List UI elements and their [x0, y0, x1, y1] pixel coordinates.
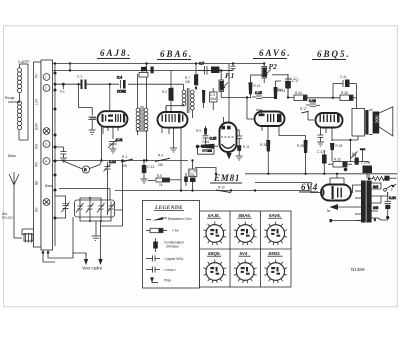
wire bus y190 left	[115, 190, 196, 192]
svg-text:6AV6.: 6AV6.	[269, 213, 281, 218]
junction node grid EM81	[196, 145, 218, 154]
capacitor C6 series	[151, 67, 154, 74]
wire 6AV6 to R28	[279, 131, 306, 136]
ground under 6BA6	[170, 148, 177, 152]
resistor R12 small	[216, 186, 231, 194]
wire switch bottom to gang	[42, 250, 73, 262]
tube 6V4 envelope	[321, 185, 351, 201]
svg-text:Blanc: Blanc	[45, 184, 53, 188]
svg-text:R.13: R.13	[254, 84, 261, 88]
svg-text:Blanc: Blanc	[8, 154, 16, 158]
switch wafer left column	[34, 62, 42, 247]
svg-text:300: 300	[375, 115, 380, 123]
svg-text:C.13: C.13	[148, 165, 155, 169]
wire AF to OT	[287, 96, 357, 99]
svg-text:CON2: CON2	[117, 90, 126, 94]
switch contact dots	[54, 62, 57, 219]
resistor R5	[156, 174, 170, 187]
capacitor C15	[203, 126, 217, 147]
wire R5 leads	[148, 179, 182, 182]
wire left column x55	[54, 64, 56, 247]
svg-text:4: 4	[45, 160, 47, 164]
power transformer core	[361, 181, 372, 223]
power transformer taps left	[355, 185, 361, 221]
legend resistor 1w	[146, 228, 179, 232]
variable capacitor CV3	[97, 202, 105, 215]
svg-text:1M8: 1M8	[203, 149, 209, 153]
wire B+ top rail	[51, 63, 265, 65]
wire mains lead	[330, 219, 362, 222]
wire bus y190 right	[196, 190, 310, 192]
capacitor C19b under 6BQ5	[318, 133, 324, 142]
ground under 6BQ5	[317, 142, 324, 146]
potentiometer P2	[262, 62, 271, 83]
legend resistor 0.5w	[146, 217, 192, 221]
svg-text:N1369: N1369	[351, 267, 365, 272]
capacitor C14 trimmer	[104, 160, 116, 215]
tube 6BA6 electrodes	[162, 114, 184, 123]
antenna coil L1	[17, 64, 28, 93]
svg-text:» 1w: » 1w	[172, 229, 179, 233]
capacitor C8	[89, 117, 96, 130]
svg-text:15c: 15c	[189, 173, 195, 177]
potentiometer P1	[219, 69, 228, 97]
svg-text:C.1: C.1	[77, 75, 82, 79]
svg-text:Vers cadre: Vers cadre	[82, 266, 103, 271]
socket label 6BQ5	[207, 251, 221, 256]
resistor R4	[155, 154, 170, 168]
capacitor C18	[306, 99, 320, 106]
svg-text:BE: BE	[35, 181, 39, 185]
tube 6AJ8 pins	[90, 118, 118, 161]
svg-text:PO: PO	[35, 162, 39, 167]
wire grid line y84	[54, 83, 184, 86]
capacitor C9	[108, 138, 123, 149]
wire coil to switch	[19, 64, 28, 140]
legend mica cap	[146, 267, 176, 273]
wire 6BA6 grid stub	[166, 106, 184, 111]
resistor R14	[274, 87, 286, 99]
output transformer OT	[352, 109, 369, 141]
svg-text:6BQ5.: 6BQ5.	[317, 49, 351, 59]
svg-text:C.42: C.42	[317, 150, 324, 154]
tube 6AV6 electrodes	[259, 114, 282, 123]
ground under C9	[110, 149, 117, 153]
svg-text:P2: P2	[269, 62, 278, 71]
svg-text:C.ADPT: C.ADPT	[18, 60, 30, 64]
svg-text:6BQ5.: 6BQ5.	[208, 251, 221, 256]
tube 6BQ5 electrodes	[320, 114, 340, 123]
socket label EM81	[268, 251, 283, 256]
variable capacitor CV2	[86, 202, 94, 215]
tube 6BA6 envelope	[158, 112, 188, 128]
svg-text:R.28: R.28	[297, 144, 304, 148]
svg-text:R.32: R.32	[334, 158, 341, 162]
thermistor line	[368, 174, 397, 181]
legend paper cap	[146, 256, 184, 262]
svg-text:R.11: R.11	[243, 145, 250, 149]
wire OT down	[332, 139, 358, 162]
socket 6AV6	[264, 222, 287, 246]
svg-text:chimique: chimique	[166, 245, 179, 249]
arrow below EM81	[226, 152, 231, 159]
junction dots bus1	[100, 159, 182, 191]
label 6BA6	[157, 49, 193, 60]
power transformer taps right	[372, 183, 379, 222]
label 6BQ5	[312, 49, 351, 60]
variable capacitor CV4	[107, 202, 115, 215]
legend prise	[150, 277, 171, 283]
svg-text:6v3: 6v3	[373, 185, 378, 189]
wire branch x92	[77, 83, 92, 116]
capacitor C44 tone	[351, 152, 358, 159]
svg-text:C.24: C.24	[389, 196, 396, 200]
legend title LEGENDE	[154, 205, 184, 211]
svg-text:R.17: R.17	[300, 107, 307, 111]
tuning gang outline	[75, 200, 115, 217]
svg-text:EM81: EM81	[269, 251, 281, 256]
tube 6AJ8 electrodes	[102, 114, 126, 123]
legend electrolytic	[153, 238, 185, 252]
svg-text:6V4: 6V4	[240, 251, 248, 256]
svg-text:50m: 50m	[277, 88, 284, 92]
resistor R32 box	[328, 158, 352, 172]
variable capacitor CV1	[76, 202, 84, 215]
tap P3	[60, 83, 65, 94]
svg-text:0: 0	[374, 218, 376, 222]
wire gang top bus	[59, 189, 110, 202]
resistor R30	[260, 140, 270, 175]
svg-text:C.11: C.11	[116, 138, 123, 142]
tube 6AV6 envelope	[255, 112, 285, 127]
ground right of EM81	[236, 151, 243, 160]
capacitor C17	[285, 74, 299, 93]
wire antenna tap	[8, 101, 20, 103]
svg-text:R.6: R.6	[157, 174, 162, 178]
capacitor C5 switch	[55, 147, 67, 162]
wire to cadre	[73, 210, 123, 256]
svg-text:C.14: C.14	[109, 160, 116, 164]
wire tone line y161	[347, 162, 369, 165]
svg-text:3: 3	[45, 143, 47, 147]
resistor R17	[300, 107, 309, 114]
svg-text:P.3: P.3	[60, 90, 65, 94]
resistor R24 box	[294, 91, 307, 101]
svg-text:OC: OC	[35, 207, 39, 212]
IF transformer T2	[182, 84, 194, 118]
speaker voice coil	[373, 112, 380, 134]
capacitor C15b	[252, 91, 266, 98]
svg-text:6BA6.: 6BA6.	[239, 213, 251, 218]
socket label 6BA6	[238, 213, 252, 218]
tube EM81 leads top	[224, 64, 230, 123]
resistor R2 screen	[162, 71, 174, 112]
svg-text:P.1: P.1	[225, 71, 234, 80]
plug speaker jack	[360, 148, 365, 161]
tube 6AV6 pins	[247, 98, 279, 141]
arrow 5v heater	[327, 204, 356, 213]
resistor R8	[202, 90, 205, 108]
wire AGC rail	[51, 70, 233, 72]
svg-text:240: 240	[373, 206, 379, 210]
capacitor C9 box	[210, 88, 218, 110]
svg-text:6AJ8.: 6AJ8.	[208, 213, 220, 218]
wire padder leads	[55, 196, 66, 218]
resistor R osc top	[139, 67, 148, 78]
svg-text:C.18: C.18	[309, 99, 316, 103]
svg-text:1: 1	[45, 76, 47, 80]
IF transformer T1	[136, 62, 148, 160]
svg-text:5v: 5v	[327, 209, 331, 213]
wire transformer right join	[378, 183, 388, 220]
resistor R16	[201, 140, 215, 153]
svg-text:Résistance 0,5w: Résistance 0,5w	[168, 217, 192, 221]
wire IF bus y160	[51, 160, 188, 162]
wire gang bottom to ground	[80, 215, 111, 237]
svg-text:» papier 500v: » papier 500v	[164, 257, 184, 261]
svg-text:R.9: R.9	[196, 129, 201, 133]
resistor R9	[196, 128, 207, 135]
svg-text:6AJ8.: 6AJ8.	[100, 48, 132, 58]
switch wafer right column	[41, 60, 53, 250]
box filter	[207, 67, 233, 74]
capacitor C43 dark	[355, 158, 359, 165]
capacitor C22 electrolytic	[184, 173, 188, 186]
svg-text:EM81: EM81	[213, 173, 240, 183]
svg-text:LUX: LUX	[35, 98, 39, 105]
svg-text:C.4: C.4	[117, 76, 122, 80]
antenna coil L2	[17, 92, 21, 130]
wire rail stub x70	[69, 62, 71, 71]
svg-text:R.30: R.30	[260, 143, 267, 147]
speaker cone	[369, 107, 393, 136]
ground gang	[92, 236, 101, 240]
tube EM81 electrodes	[221, 126, 235, 148]
svg-text:R.4: R.4	[158, 154, 163, 158]
capacitor C7 series	[198, 62, 207, 75]
socket 6AJ8	[203, 222, 226, 246]
arrow vers cadre 2	[98, 253, 102, 265]
tube 6V4 electrodes	[323, 186, 342, 199]
svg-text:R.24: R.24	[295, 91, 302, 95]
svg-text:GO: GO	[35, 144, 39, 149]
svg-text:C.21: C.21	[340, 75, 347, 79]
socket grid frame	[200, 211, 292, 287]
svg-text:Rouge: Rouge	[5, 96, 15, 100]
resistor R11 right of EM81	[237, 145, 250, 151]
svg-text:R.12: R.12	[218, 186, 225, 190]
resistor R29 under 6BQ5	[330, 143, 342, 161]
svg-text:R.1: R.1	[122, 155, 127, 159]
socket EM81	[264, 260, 287, 284]
capacitor C20 electrolytic	[361, 161, 372, 179]
capacitor C42	[317, 150, 327, 175]
tube EM81 envelope	[220, 123, 237, 153]
svg-text:R.2: R.2	[162, 90, 167, 94]
resistor R13	[249, 82, 261, 94]
capacitor C24 body	[385, 201, 392, 219]
resistor R26 box	[340, 91, 353, 101]
socket label 6V4	[239, 251, 251, 256]
wire grid drop to 6AJ8	[109, 84, 111, 111]
ground C8	[89, 130, 96, 134]
svg-text:PU: PU	[35, 73, 39, 78]
label EM81	[210, 173, 242, 183]
wires AF node	[221, 75, 294, 99]
box C70 paper cap	[189, 159, 197, 191]
svg-text:10k: 10k	[185, 80, 191, 84]
capacitor C23 feedback	[333, 75, 357, 109]
capacitor C1 series	[77, 75, 87, 90]
socket 6V4	[234, 260, 257, 284]
svg-text:EUR: EUR	[35, 123, 39, 130]
tube 6BQ5 pins	[308, 111, 332, 141]
socket 6BA6	[234, 222, 257, 246]
wire 6V4 cathode up	[351, 185, 355, 193]
wire osc vertical x122	[115, 161, 123, 211]
tube 6BA6 pins	[162, 106, 181, 191]
resistor R1	[121, 155, 133, 168]
capacitor C17b series	[272, 75, 297, 98]
svg-text:R.29: R.29	[336, 144, 343, 148]
choke L3	[14, 229, 44, 243]
svg-text:Prise: Prise	[164, 279, 171, 283]
socket 6BQ5	[203, 260, 226, 284]
capacitor C24 lead	[388, 192, 396, 201]
svg-text:R.16: R.16	[203, 140, 210, 144]
tube 6V4 leads	[255, 173, 344, 193]
svg-text:» mica »: » mica »	[164, 268, 176, 272]
antenna Ant OC	[9, 172, 19, 238]
resistor R7	[185, 62, 198, 90]
svg-text:30nf: 30nf	[210, 97, 216, 101]
capacitor C4 series	[117, 76, 126, 94]
svg-text:1k: 1k	[159, 183, 163, 187]
svg-text:22k: 22k	[158, 163, 164, 167]
svg-text:C.15: C.15	[210, 137, 217, 141]
svg-text:6BA6.: 6BA6.	[160, 49, 193, 59]
svg-text:C.15: C.15	[255, 91, 262, 95]
label 6AJ8	[97, 48, 132, 59]
wire EM81 bottom bus	[195, 168, 217, 176]
switch Int	[384, 184, 396, 192]
capacitor C13	[141, 161, 155, 184]
svg-text:C.17: C.17	[290, 77, 297, 81]
tube 6AJ8 envelope	[98, 111, 128, 127]
svg-text:2: 2	[45, 87, 47, 91]
svg-text:F: F	[391, 188, 393, 192]
tube 6BQ5 envelope	[316, 113, 343, 128]
trimmer cap padder	[62, 200, 70, 214]
pickup jack circled R	[62, 161, 102, 174]
wire HT bus y174	[245, 173, 397, 175]
svg-text:6AV6.: 6AV6.	[259, 48, 292, 58]
socket label 6AV6	[268, 213, 282, 218]
resistor R28	[297, 136, 308, 176]
svg-text:R.26: R.26	[341, 91, 348, 95]
socket label 6AJ8	[207, 213, 221, 218]
svg-text:C.7: C.7	[199, 62, 204, 66]
arrow vers cadre 1	[84, 253, 88, 265]
legend box	[143, 201, 200, 289]
label 6V4	[299, 182, 318, 192]
label 6AV6	[253, 48, 292, 59]
capacitor C12 bridge	[231, 62, 236, 70]
capacitor C16 right of EM81	[236, 130, 242, 145]
